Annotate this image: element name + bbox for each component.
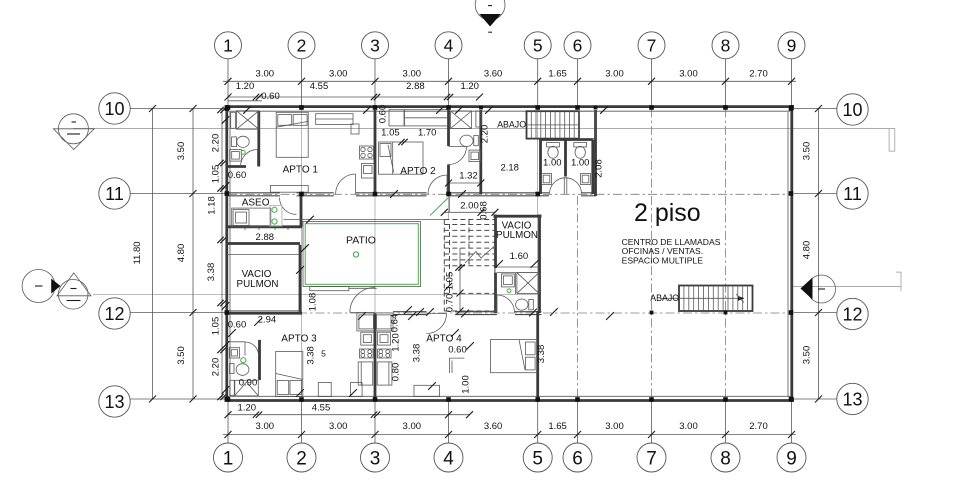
svg-text:4.80: 4.80 [176, 244, 187, 263]
svg-text:1.70: 1.70 [418, 128, 437, 139]
svg-text:4.55: 4.55 [310, 81, 329, 92]
svg-text:1.20: 1.20 [238, 403, 257, 414]
svg-text:2.08: 2.08 [594, 159, 605, 178]
svg-text:1.05: 1.05 [211, 165, 222, 184]
svg-text:2.70: 2.70 [749, 69, 768, 80]
svg-text:9: 9 [786, 448, 797, 469]
svg-text:7: 7 [646, 448, 657, 469]
svg-text:5: 5 [532, 448, 543, 469]
svg-text:3.00: 3.00 [605, 69, 624, 80]
svg-text:1.00: 1.00 [571, 157, 590, 168]
svg-text:1.20: 1.20 [460, 81, 479, 92]
svg-text:1.00: 1.00 [460, 375, 471, 394]
svg-text:4.55: 4.55 [312, 403, 331, 414]
svg-text:3.50: 3.50 [802, 346, 813, 365]
svg-text:PULMON: PULMON [237, 279, 279, 290]
svg-text:2.20: 2.20 [211, 134, 222, 153]
svg-text:0.60: 0.60 [228, 170, 247, 181]
svg-text:1: 1 [223, 36, 233, 56]
svg-text:8: 8 [720, 448, 731, 469]
svg-text:1.05: 1.05 [381, 128, 400, 139]
svg-text:2.20: 2.20 [480, 125, 491, 144]
svg-text:3.50: 3.50 [176, 346, 187, 365]
svg-text:1.20: 1.20 [391, 333, 402, 352]
svg-text:0.70: 0.70 [445, 294, 456, 313]
svg-text:5: 5 [533, 36, 543, 56]
svg-text:3.38: 3.38 [411, 344, 422, 363]
svg-text:PATIO: PATIO [346, 235, 376, 247]
svg-text:0.80: 0.80 [391, 363, 402, 382]
svg-text:12: 12 [104, 304, 124, 324]
svg-text:3.38: 3.38 [305, 346, 316, 365]
svg-text:APTO 3: APTO 3 [281, 334, 317, 345]
svg-text:7: 7 [647, 36, 657, 56]
svg-text:8: 8 [721, 36, 731, 56]
svg-text:1.65: 1.65 [548, 69, 567, 80]
svg-text:1.05: 1.05 [445, 272, 456, 291]
svg-text:2: 2 [296, 448, 307, 469]
svg-text:0.60: 0.60 [228, 320, 247, 331]
svg-text:3.00: 3.00 [403, 69, 422, 80]
svg-text:3.38: 3.38 [206, 263, 217, 282]
svg-text:4.80: 4.80 [802, 241, 813, 260]
svg-text:3.00: 3.00 [679, 69, 698, 80]
svg-text:3.00: 3.00 [256, 421, 275, 432]
svg-text:1.32: 1.32 [459, 171, 478, 182]
svg-text:1.60: 1.60 [510, 251, 529, 262]
svg-text:0.90: 0.90 [239, 378, 258, 389]
svg-text:1.00: 1.00 [543, 157, 562, 168]
svg-text:0.64: 0.64 [389, 314, 400, 333]
svg-text:12: 12 [842, 305, 862, 325]
svg-text:2.20: 2.20 [211, 358, 222, 377]
svg-text:ABAJO: ABAJO [650, 293, 679, 303]
svg-text:2.70: 2.70 [749, 421, 768, 432]
svg-text:9: 9 [787, 36, 797, 56]
svg-text:2 piso: 2 piso [634, 199, 701, 227]
svg-text:11: 11 [843, 184, 862, 204]
svg-text:2.18: 2.18 [500, 163, 519, 174]
svg-text:13: 13 [104, 392, 124, 412]
svg-text:11: 11 [105, 184, 124, 204]
svg-text:1.65: 1.65 [548, 421, 567, 432]
svg-text:APTO 2: APTO 2 [400, 166, 436, 177]
svg-text:APTO 1: APTO 1 [283, 165, 319, 176]
svg-text:3.60: 3.60 [484, 69, 503, 80]
svg-text:6: 6 [573, 36, 583, 56]
svg-text:1: 1 [223, 448, 234, 469]
svg-text:2.00: 2.00 [460, 200, 479, 211]
svg-text:10: 10 [104, 99, 124, 119]
svg-text:3.50: 3.50 [176, 142, 187, 161]
svg-text:0.68: 0.68 [479, 201, 490, 220]
svg-text:ESPACIO MULTIPLE: ESPACIO MULTIPLE [622, 256, 704, 266]
svg-text:3: 3 [370, 36, 380, 56]
svg-text:4: 4 [444, 36, 454, 56]
svg-text:3.38: 3.38 [536, 345, 547, 364]
svg-text:2.94: 2.94 [258, 315, 277, 326]
svg-text:ABAJO: ABAJO [497, 120, 526, 130]
svg-text:5: 5 [321, 349, 326, 359]
svg-text:3.00: 3.00 [329, 69, 348, 80]
svg-text:ASEO: ASEO [242, 197, 270, 208]
svg-text:0.60: 0.60 [378, 105, 389, 124]
svg-text:3.00: 3.00 [605, 421, 624, 432]
svg-text:6: 6 [572, 448, 583, 469]
svg-text:APTO 4: APTO 4 [426, 334, 462, 345]
svg-text:3.50: 3.50 [802, 142, 813, 161]
svg-text:3: 3 [370, 448, 381, 469]
svg-text:1.20: 1.20 [236, 81, 255, 92]
svg-text:11.80: 11.80 [132, 241, 143, 264]
svg-text:0.60: 0.60 [261, 91, 280, 102]
svg-text:4: 4 [443, 448, 454, 469]
svg-text:0.60: 0.60 [448, 345, 467, 356]
svg-text:3.00: 3.00 [679, 421, 698, 432]
svg-text:1.05: 1.05 [211, 317, 222, 336]
svg-text:PULMON: PULMON [496, 230, 538, 241]
svg-text:3.00: 3.00 [256, 69, 275, 80]
svg-text:1.18: 1.18 [207, 196, 218, 215]
svg-text:3.00: 3.00 [403, 421, 422, 432]
svg-text:10: 10 [842, 100, 862, 120]
svg-text:2.88: 2.88 [256, 232, 275, 243]
svg-text:13: 13 [842, 390, 862, 410]
svg-text:2.88: 2.88 [406, 81, 425, 92]
svg-text:3.60: 3.60 [484, 421, 503, 432]
svg-text:3.00: 3.00 [329, 421, 348, 432]
svg-text:2: 2 [297, 36, 307, 56]
svg-text:1.08: 1.08 [308, 293, 319, 312]
